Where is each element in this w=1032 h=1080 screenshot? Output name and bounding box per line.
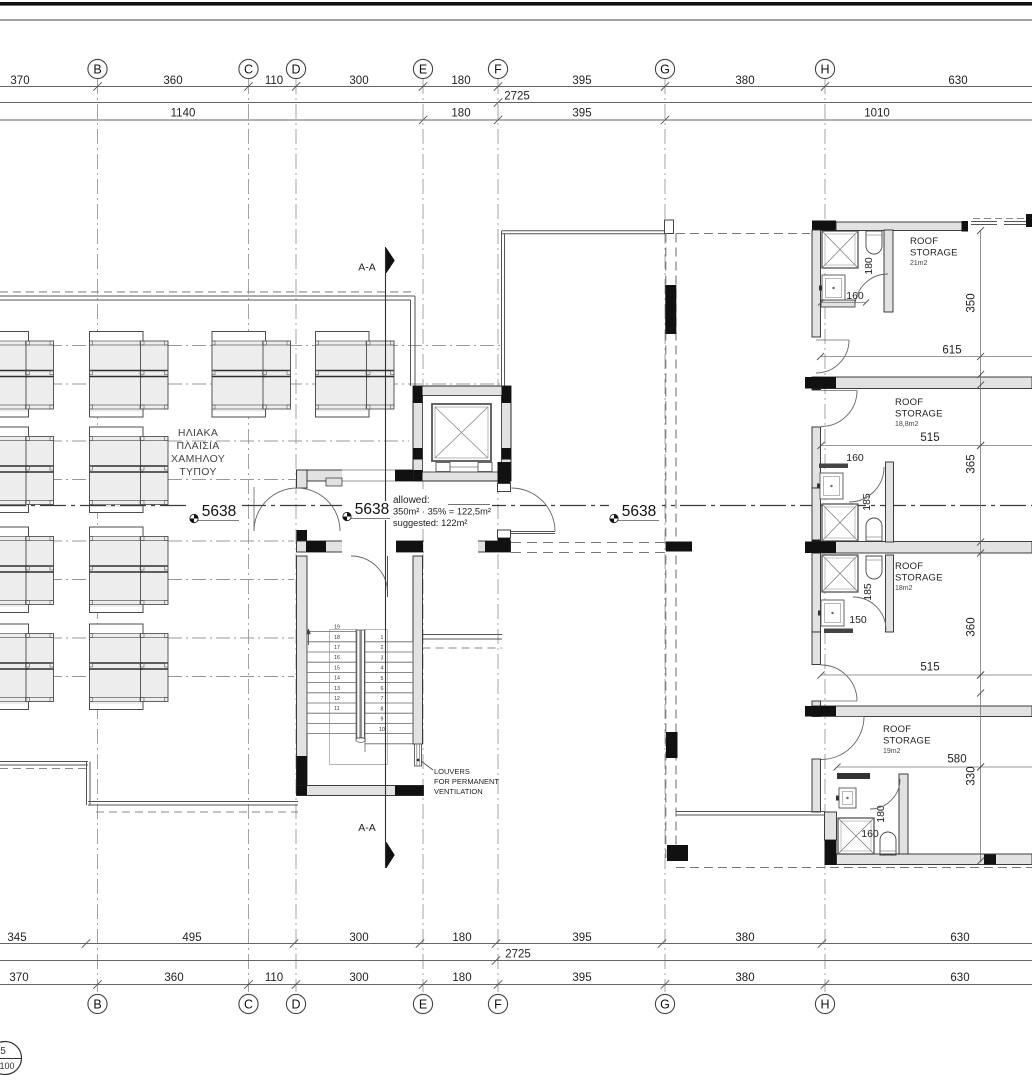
- svg-text:2725: 2725: [505, 949, 531, 961]
- svg-text:18m2: 18m2: [895, 585, 913, 592]
- svg-text:ROOF: ROOF: [910, 236, 938, 247]
- svg-text:ROOF: ROOF: [895, 397, 923, 408]
- svg-text:395: 395: [572, 108, 591, 120]
- svg-text:330: 330: [966, 766, 978, 785]
- svg-text:16: 16: [334, 655, 340, 661]
- svg-text:630: 630: [948, 75, 967, 87]
- svg-text:STORAGE: STORAGE: [910, 248, 958, 259]
- svg-text:ΠΛΑΙΣΙΑ: ΠΛΑΙΣΙΑ: [176, 440, 219, 452]
- svg-text:H: H: [820, 63, 829, 77]
- svg-text:C: C: [244, 998, 253, 1012]
- svg-text:D: D: [291, 998, 300, 1012]
- svg-text:370: 370: [10, 75, 29, 87]
- svg-text:1: 1: [381, 635, 384, 641]
- svg-text:allowed:: allowed:: [393, 495, 430, 506]
- svg-text:C: C: [244, 63, 253, 77]
- svg-text:B: B: [93, 63, 101, 77]
- svg-text:14: 14: [334, 676, 340, 682]
- svg-text:180: 180: [451, 108, 470, 120]
- svg-text:5: 5: [381, 676, 384, 682]
- svg-text:5638: 5638: [202, 503, 236, 520]
- svg-text:A-A: A-A: [358, 262, 376, 274]
- svg-text:300: 300: [349, 75, 368, 87]
- svg-text:185: 185: [862, 583, 874, 601]
- svg-text:D: D: [291, 63, 300, 77]
- svg-text:6: 6: [381, 686, 384, 692]
- svg-text:G: G: [660, 998, 670, 1012]
- svg-text:ROOF: ROOF: [895, 561, 923, 572]
- svg-text:18: 18: [334, 635, 340, 641]
- svg-text:360: 360: [164, 972, 183, 984]
- svg-text:FOR PERMANENT: FOR PERMANENT: [434, 777, 499, 786]
- svg-text:150: 150: [849, 614, 867, 626]
- svg-text:180: 180: [863, 257, 875, 275]
- svg-text:suggested: 122m²: suggested: 122m²: [393, 518, 467, 528]
- svg-text:300: 300: [349, 932, 368, 944]
- svg-text:4: 4: [381, 666, 384, 672]
- svg-text:395: 395: [572, 972, 591, 984]
- svg-text:395: 395: [572, 75, 591, 87]
- svg-text:100: 100: [0, 1061, 15, 1071]
- svg-text:515: 515: [920, 662, 939, 674]
- svg-text:STORAGE: STORAGE: [895, 573, 943, 584]
- svg-text:350: 350: [966, 293, 978, 312]
- svg-text:360: 360: [966, 617, 978, 636]
- svg-text:17: 17: [334, 645, 340, 651]
- svg-text:1010: 1010: [864, 108, 890, 120]
- svg-text:395: 395: [572, 932, 591, 944]
- svg-text:110: 110: [265, 972, 283, 984]
- svg-text:13: 13: [334, 686, 340, 692]
- svg-text:360: 360: [163, 75, 182, 87]
- svg-text:7: 7: [381, 696, 384, 702]
- svg-text:9: 9: [381, 717, 384, 723]
- svg-text:180: 180: [452, 932, 471, 944]
- svg-text:19m2: 19m2: [883, 748, 901, 755]
- svg-text:180: 180: [452, 972, 471, 984]
- svg-text:160: 160: [846, 452, 864, 464]
- svg-text:ROOF: ROOF: [883, 724, 911, 735]
- svg-text:18,8m2: 18,8m2: [895, 421, 918, 428]
- svg-text:H: H: [820, 998, 829, 1012]
- svg-text:300: 300: [349, 972, 368, 984]
- svg-text:630: 630: [950, 972, 969, 984]
- svg-text:180: 180: [875, 805, 887, 823]
- svg-text:E: E: [419, 998, 427, 1012]
- svg-text:ΧΑΜΗΛΟΥ: ΧΑΜΗΛΟΥ: [171, 453, 225, 465]
- svg-text:495: 495: [182, 932, 201, 944]
- svg-text:160: 160: [861, 828, 879, 840]
- svg-text:615: 615: [942, 345, 961, 357]
- svg-text:E: E: [419, 63, 427, 77]
- svg-text:5638: 5638: [355, 501, 389, 518]
- svg-text:F: F: [494, 63, 502, 77]
- svg-text:5: 5: [0, 1046, 6, 1057]
- svg-text:365: 365: [966, 454, 978, 473]
- svg-text:370: 370: [9, 972, 28, 984]
- svg-text:380: 380: [735, 972, 754, 984]
- svg-text:380: 380: [735, 75, 754, 87]
- svg-text:ΤΥΠΟΥ: ΤΥΠΟΥ: [179, 466, 216, 478]
- svg-text:21m2: 21m2: [910, 260, 928, 267]
- svg-text:2725: 2725: [504, 91, 530, 103]
- svg-text:12: 12: [334, 696, 340, 702]
- svg-text:3: 3: [381, 655, 384, 661]
- svg-text:350m² · 35% = 122,5m²: 350m² · 35% = 122,5m²: [393, 507, 491, 517]
- svg-text:LOUVERS: LOUVERS: [434, 767, 470, 776]
- svg-text:STORAGE: STORAGE: [895, 409, 943, 420]
- svg-text:G: G: [660, 63, 670, 77]
- svg-text:1140: 1140: [171, 108, 196, 120]
- svg-text:8: 8: [381, 706, 384, 712]
- svg-text:A-A: A-A: [358, 822, 376, 834]
- svg-text:160: 160: [846, 290, 864, 302]
- svg-text:11: 11: [334, 706, 339, 712]
- svg-text:345: 345: [7, 932, 26, 944]
- svg-text:VENTILATION: VENTILATION: [434, 787, 483, 796]
- svg-text:F: F: [494, 998, 502, 1012]
- svg-text:10: 10: [379, 727, 385, 733]
- svg-text:110: 110: [265, 75, 283, 87]
- svg-text:380: 380: [735, 932, 754, 944]
- svg-text:580: 580: [947, 754, 966, 766]
- svg-text:515: 515: [920, 432, 939, 444]
- svg-text:5638: 5638: [622, 503, 656, 520]
- svg-text:STORAGE: STORAGE: [883, 736, 931, 747]
- svg-text:2: 2: [381, 645, 384, 651]
- svg-text:185: 185: [861, 493, 873, 511]
- svg-text:ΗΛΙΑΚΑ: ΗΛΙΑΚΑ: [178, 427, 218, 439]
- svg-text:B: B: [93, 998, 101, 1012]
- svg-text:15: 15: [334, 665, 340, 671]
- svg-text:630: 630: [950, 932, 969, 944]
- svg-text:180: 180: [451, 75, 470, 87]
